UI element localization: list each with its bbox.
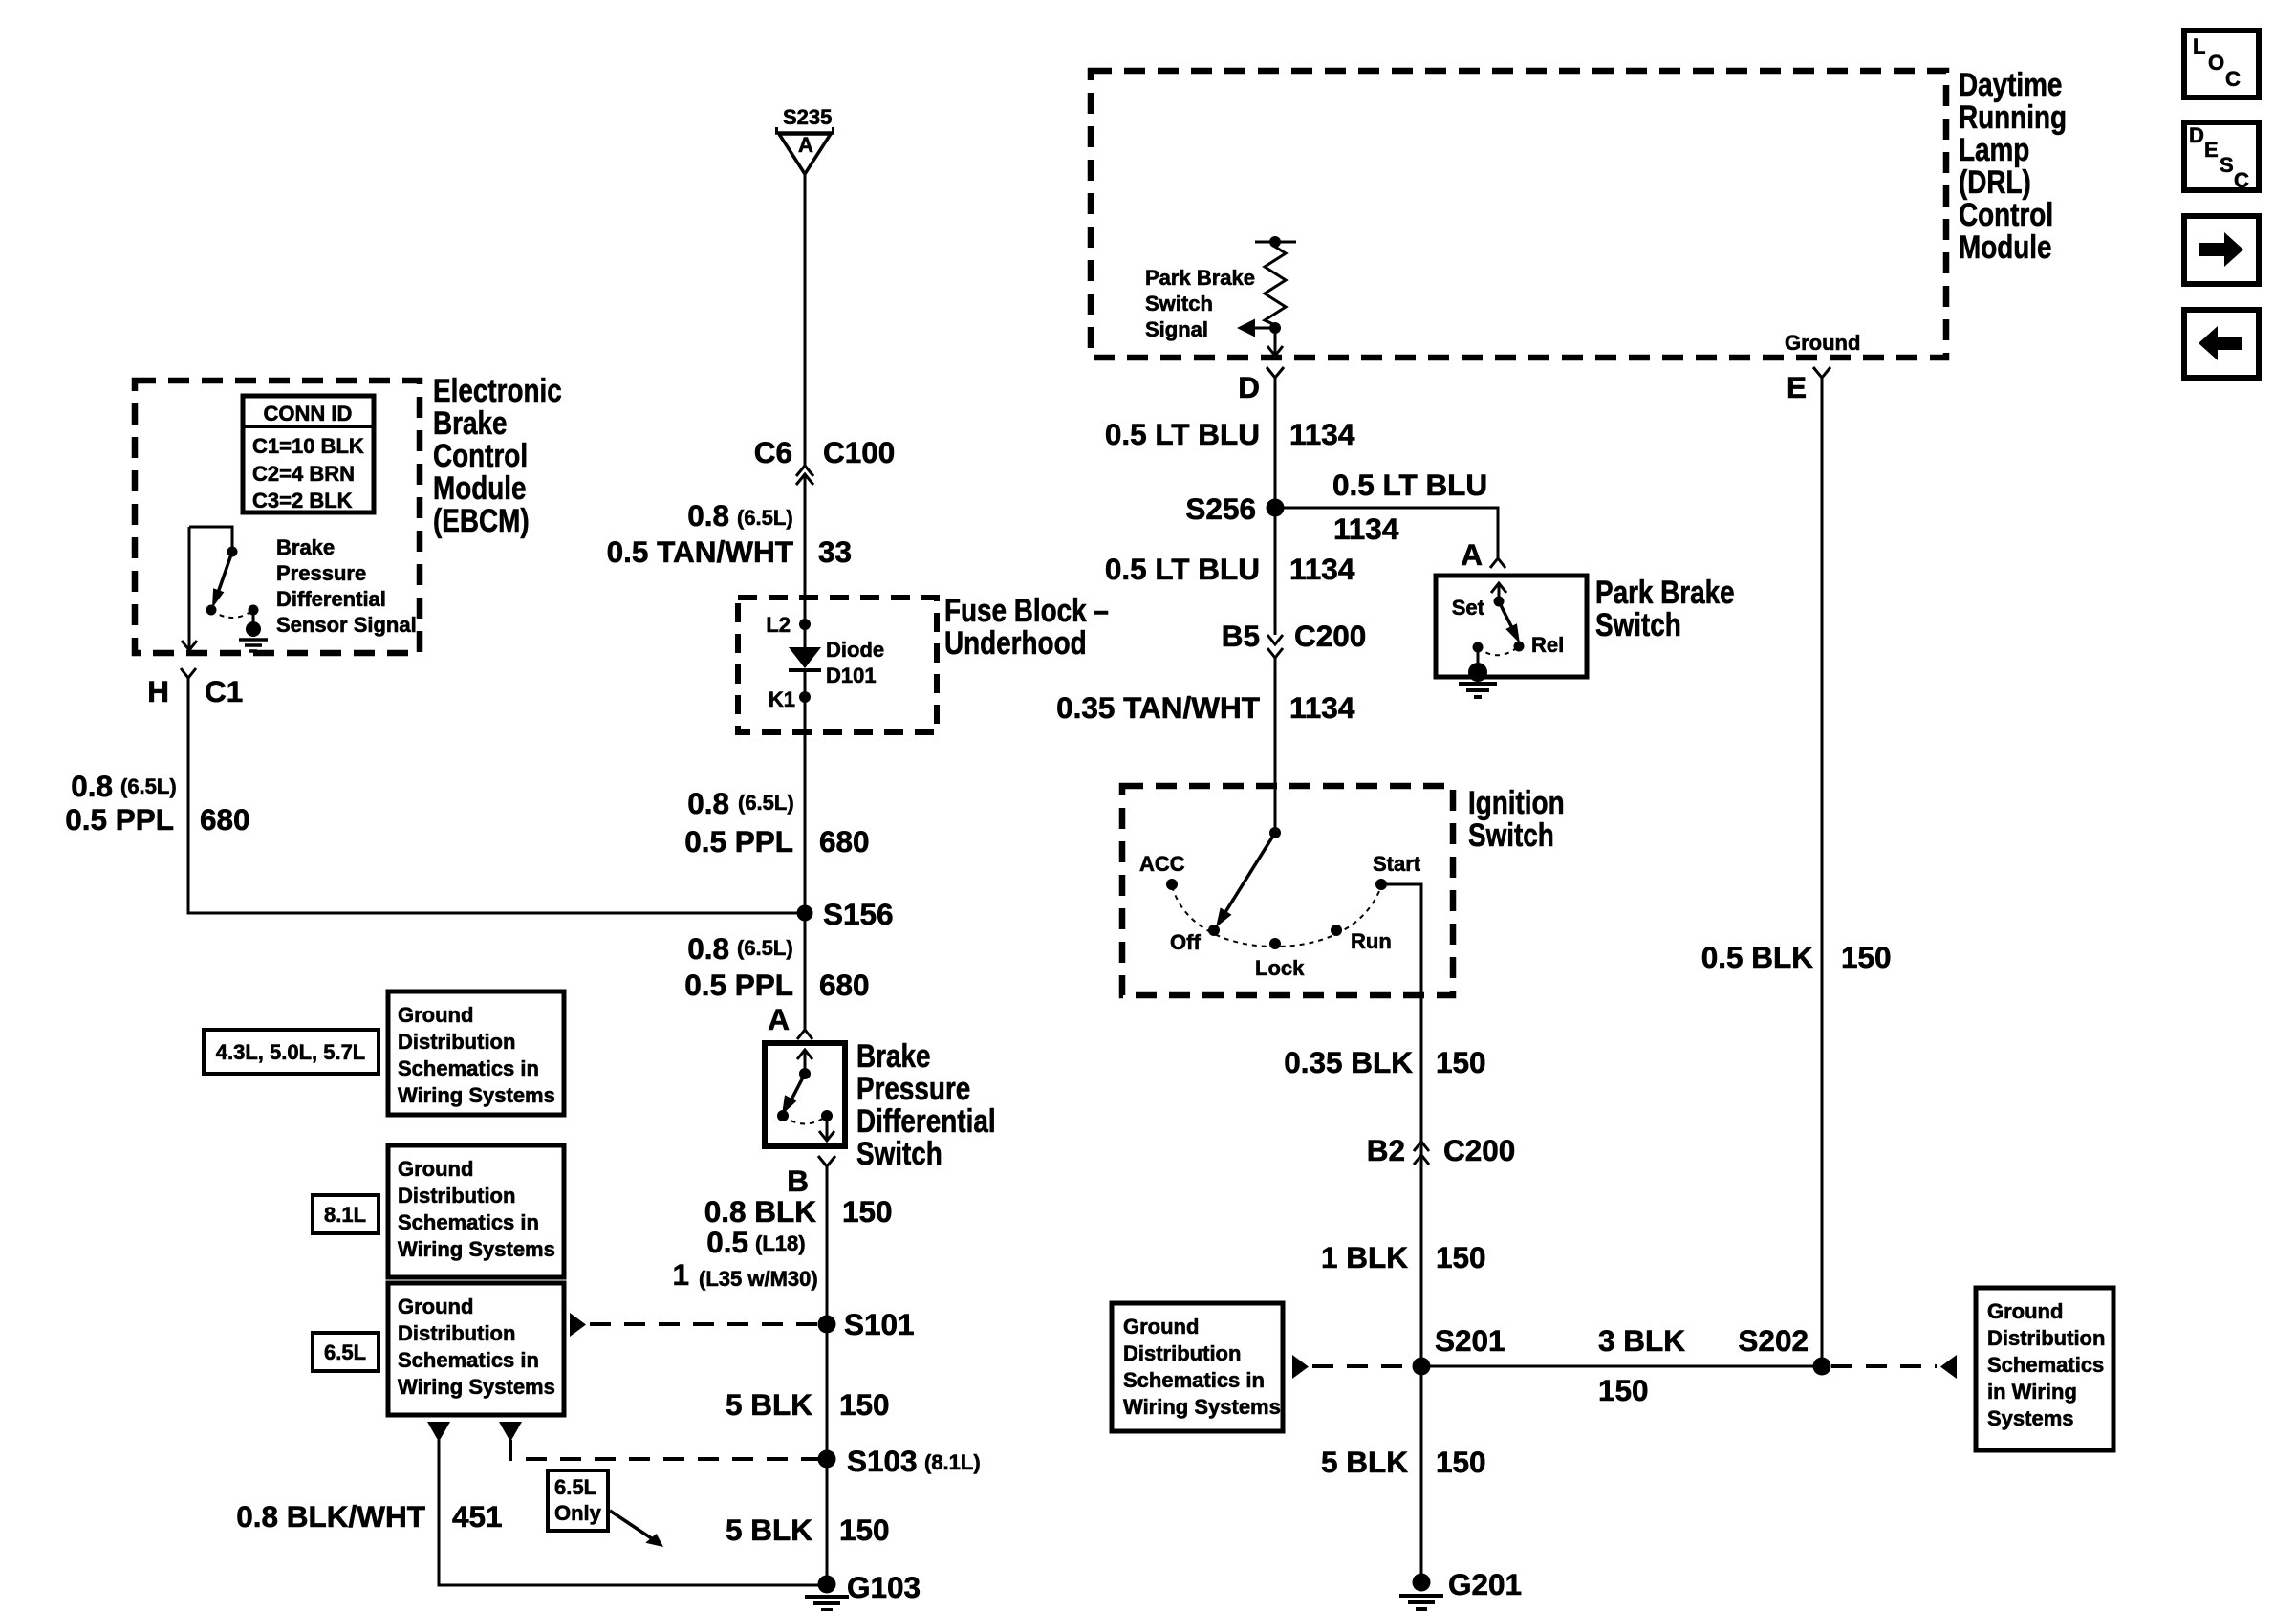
engine label 4.3L 5.0L 5.7L (204, 1030, 379, 1074)
connector C6 C100 (754, 435, 896, 485)
wire K1 to S156 (804, 697, 807, 913)
engine label 6.5L (313, 1333, 379, 1371)
svg-text:1 BLK: 1 BLK (1321, 1240, 1408, 1274)
contact Off (1170, 925, 1220, 954)
svg-text:Ground: Ground (1987, 1299, 2063, 1323)
terminal L2 (766, 613, 811, 637)
splice S256 (1185, 491, 1284, 526)
svg-text:Distribution: Distribution (398, 1030, 515, 1054)
svg-text:Schematics in: Schematics in (398, 1056, 539, 1080)
ebcm contact left (206, 605, 217, 616)
svg-text:G103: G103 (847, 1570, 921, 1604)
svg-text:0.35 BLK: 0.35 BLK (1284, 1045, 1413, 1079)
svg-text:Run: Run (1351, 929, 1392, 953)
svg-text:D101: D101 (826, 664, 877, 687)
node park brake switch signal (1269, 322, 1281, 334)
ebcm sensor ground (239, 610, 268, 651)
splice S101 (818, 1307, 915, 1341)
ground distribution box right (1976, 1288, 2113, 1450)
fuse block underhood label (944, 592, 1109, 661)
contact Set (1452, 596, 1505, 620)
svg-text:150: 150 (1436, 1445, 1486, 1479)
ground G201 (1399, 1567, 1522, 1609)
connector pin E (1787, 367, 1830, 404)
svg-text:G201: G201 (1448, 1567, 1522, 1601)
svg-text:Only: Only (554, 1501, 602, 1525)
svg-text:C6: C6 (754, 435, 792, 469)
svg-text:Wiring Systems: Wiring Systems (398, 1375, 555, 1399)
svg-text:(6.5L): (6.5L) (120, 774, 177, 798)
svg-text:Switch: Switch (1595, 606, 1681, 642)
connector pin D (1238, 367, 1284, 404)
svg-text:H: H (147, 674, 169, 708)
svg-text:0.5 PPL: 0.5 PPL (684, 824, 793, 859)
ignition switch box (1122, 786, 1453, 995)
wire label 0.8 (6.5L) 0.5 TAN/WHT 33 (607, 498, 852, 569)
ebcm pivot node (227, 547, 238, 557)
svg-text:L: L (2193, 34, 2205, 58)
dashed link S202 to right ground distribution (1831, 1355, 1957, 1379)
svg-text:Diode: Diode (826, 638, 884, 662)
ground distribution box 2 (388, 1145, 564, 1277)
bpds contact arrow up (797, 1050, 812, 1074)
svg-text:Distribution: Distribution (398, 1321, 515, 1345)
bpds pivot node (799, 1068, 811, 1079)
DRL control module label (1959, 66, 2067, 265)
svg-text:Rel: Rel (1531, 633, 1564, 657)
connector pin H C1 (147, 668, 243, 708)
svg-text:5 BLK: 5 BLK (1321, 1445, 1408, 1479)
contact common (1473, 642, 1484, 653)
icon LOC button (2184, 31, 2259, 98)
svg-text:C: C (2225, 67, 2241, 91)
bpds contact left (777, 1110, 789, 1121)
signal arrow to left (1237, 319, 1275, 337)
svg-text:0.35 TAN/WHT: 0.35 TAN/WHT (1056, 690, 1260, 725)
splice pack S235 (775, 105, 834, 174)
wire S256 branch to park brake switch (1275, 508, 1498, 558)
svg-text:680: 680 (200, 802, 250, 837)
wire C100 to fuse block (804, 474, 807, 624)
svg-text:150: 150 (1436, 1240, 1486, 1274)
wire S201 to S202 (1421, 1365, 1822, 1368)
svg-text:O: O (2208, 51, 2224, 75)
ignition pivot node (1269, 827, 1281, 838)
connector B2 C200 (1367, 1133, 1516, 1167)
ebcm arc dashed (211, 610, 253, 618)
svg-text:(6.5L): (6.5L) (737, 936, 793, 960)
svg-text:Control: Control (1959, 196, 2053, 232)
ground distribution box 1 (388, 991, 564, 1115)
svg-text:(L35 w/M30): (L35 w/M30) (699, 1267, 818, 1291)
svg-text:Park Brake: Park Brake (1595, 574, 1735, 610)
svg-text:Wiring Systems: Wiring Systems (1123, 1395, 1281, 1419)
wire label 0.5 LT BLU 1134 lower (1105, 552, 1355, 586)
wire label 0.5 BLK 150 (1701, 940, 1892, 974)
wire label 0.8 BLK 150 (704, 1194, 893, 1229)
svg-text:0.8 BLK: 0.8 BLK (704, 1194, 817, 1229)
ground distribution box 3 (388, 1283, 564, 1415)
svg-text:Brake: Brake (433, 404, 507, 441)
ebcm internal wire (189, 527, 232, 547)
svg-text:A: A (798, 133, 813, 157)
EBCM box (135, 381, 420, 653)
ebcm switch arm (212, 552, 232, 608)
ebcm contact right (249, 605, 259, 616)
svg-text:Lock: Lock (1255, 956, 1305, 980)
wire label 0.8 BLK/WHT 451 (236, 1499, 502, 1534)
svg-text:Pressure: Pressure (856, 1070, 970, 1106)
contact Lock (1255, 938, 1305, 980)
svg-text:Differential: Differential (856, 1102, 996, 1139)
park brake switch label (1595, 574, 1735, 642)
svg-text:451: 451 (452, 1499, 503, 1534)
wire E vertical (1821, 378, 1824, 1366)
svg-text:C100: C100 (823, 435, 895, 469)
svg-text:Pressure: Pressure (276, 561, 366, 585)
svg-text:150: 150 (839, 1513, 890, 1547)
dashed link S201 to left ground distribution (1292, 1355, 1413, 1379)
svg-text:(L18): (L18) (755, 1231, 806, 1255)
CONN ID table (243, 396, 374, 512)
svg-text:Start: Start (1373, 852, 1421, 876)
svg-text:C: C (2234, 168, 2249, 192)
svg-text:E: E (2204, 138, 2219, 162)
svg-text:0.8: 0.8 (687, 498, 729, 533)
svg-text:Systems: Systems (1987, 1406, 2074, 1430)
svg-text:0.8 BLK/WHT: 0.8 BLK/WHT (236, 1499, 425, 1534)
park brake switch box (1436, 576, 1587, 677)
icon DESC button (2184, 122, 2259, 192)
svg-text:0.5 TAN/WHT: 0.5 TAN/WHT (607, 534, 793, 569)
DRL control module box (1091, 71, 1946, 358)
svg-text:0.8: 0.8 (687, 786, 729, 820)
dashed link to S103 (510, 1440, 818, 1459)
svg-text:D: D (1238, 370, 1260, 404)
bpds arc dashed (783, 1116, 827, 1124)
svg-text:Underhood: Underhood (944, 624, 1087, 661)
connector pin A park brake switch (1461, 537, 1505, 572)
brake pressure differential sensor signal label (276, 535, 417, 637)
svg-text:S202: S202 (1738, 1323, 1809, 1358)
svg-text:Wiring Systems: Wiring Systems (398, 1237, 555, 1261)
svg-text:1: 1 (672, 1257, 689, 1292)
svg-text:(EBCM): (EBCM) (433, 502, 530, 538)
arrow down at DRL pin D (1267, 346, 1283, 356)
svg-text:0.5: 0.5 (706, 1225, 748, 1259)
ignition switch arm (1216, 833, 1275, 927)
svg-text:0.5 LT BLU: 0.5 LT BLU (1332, 468, 1487, 502)
svg-text:Schematics in: Schematics in (398, 1210, 539, 1234)
svg-text:680: 680 (819, 968, 870, 1002)
svg-text:5 BLK: 5 BLK (726, 1387, 812, 1422)
svg-text:A: A (1461, 537, 1483, 572)
wire S235 to C100 (804, 174, 807, 467)
wire blk/wht to G103 (439, 1440, 827, 1585)
terminal K1 (769, 687, 811, 711)
svg-text:Distribution: Distribution (398, 1184, 515, 1208)
svg-text:(8.1L): (8.1L) (924, 1450, 981, 1474)
wire B2 to S201 (1420, 1155, 1423, 1582)
svg-text:Wiring Systems: Wiring Systems (398, 1083, 555, 1107)
wire label 3 BLK 150 (1598, 1323, 1685, 1407)
splice S156 (797, 897, 894, 931)
wire label 0.35 BLK 150 (1284, 1045, 1485, 1079)
svg-text:0.5 BLK: 0.5 BLK (1701, 940, 1814, 974)
wire label 0.8 (6.5L) 0.5 PPL 680 upper (684, 786, 869, 859)
ground park brake switch (1459, 647, 1497, 697)
svg-text:Brake: Brake (856, 1037, 930, 1074)
svg-text:S: S (2220, 153, 2234, 177)
svg-text:Ground: Ground (398, 1295, 473, 1318)
svg-text:CONN ID: CONN ID (264, 402, 353, 425)
svg-text:S235: S235 (783, 105, 832, 129)
svg-text:Park Brake: Park Brake (1145, 266, 1255, 290)
resistor (DRL internal pull-up) (1255, 242, 1296, 328)
ignition rotary arc dashed (1172, 886, 1381, 947)
contact Start (1373, 852, 1421, 890)
svg-text:0.5 PPL: 0.5 PPL (684, 968, 793, 1002)
connector pin A brake pressure switch (768, 1002, 812, 1039)
svg-text:Switch: Switch (1468, 816, 1554, 853)
wire B to G103 (826, 1166, 829, 1583)
svg-text:8.1L: 8.1L (324, 1203, 366, 1227)
arrow down left under box3 (427, 1422, 450, 1442)
svg-text:Set: Set (1452, 596, 1485, 620)
svg-text:150: 150 (1841, 940, 1892, 974)
brake pressure differential switch label (856, 1037, 996, 1171)
bpds switch arm (782, 1074, 805, 1115)
park brake switch arm (1499, 601, 1520, 643)
svg-text:0.5 PPL: 0.5 PPL (65, 802, 174, 837)
svg-text:1134: 1134 (1333, 512, 1399, 546)
connector B5 C200 (1222, 619, 1367, 658)
svg-text:Running: Running (1959, 98, 2067, 135)
wire label 5 BLK 150 upper (726, 1387, 890, 1422)
node resistor top (1269, 236, 1281, 248)
svg-text:Ground: Ground (1785, 331, 1860, 355)
svg-text:L2: L2 (766, 613, 791, 637)
svg-text:1134: 1134 (1289, 417, 1355, 451)
svg-text:150: 150 (839, 1387, 890, 1422)
svg-text:Module: Module (1959, 229, 2052, 265)
svg-text:680: 680 (819, 824, 870, 859)
svg-text:Distribution: Distribution (1987, 1326, 2105, 1350)
connector pin B (787, 1156, 835, 1198)
ebcm pin wire with down arrow (182, 527, 197, 650)
wire label 0.8 (6.5L) 0.5 PPL 680 lower (684, 931, 869, 1002)
svg-text:Electronic: Electronic (433, 372, 562, 408)
svg-text:5 BLK: 5 BLK (726, 1513, 812, 1547)
svg-text:Fuse Block –: Fuse Block – (944, 592, 1109, 628)
svg-text:D: D (2189, 123, 2204, 147)
ground distribution box left (1112, 1303, 1283, 1431)
park brake switch contact arrow up (1491, 583, 1506, 601)
svg-text:E: E (1787, 370, 1807, 404)
svg-text:C1=10 BLK: C1=10 BLK (252, 434, 364, 458)
svg-text:150: 150 (1598, 1373, 1649, 1407)
bpds contact arrow down (819, 1116, 834, 1141)
svg-text:C200: C200 (1443, 1133, 1515, 1167)
brake pressure differential switch box (765, 1043, 845, 1146)
svg-text:Daytime: Daytime (1959, 66, 2062, 102)
svg-text:Distribution: Distribution (1123, 1341, 1241, 1365)
svg-text:Switch: Switch (1145, 292, 1213, 316)
wire into ignition switch (1274, 658, 1277, 833)
svg-text:0.5 LT BLU: 0.5 LT BLU (1105, 552, 1260, 586)
splice S202 (1738, 1323, 1830, 1376)
svg-text:Lamp: Lamp (1959, 131, 2029, 167)
svg-text:150: 150 (842, 1194, 893, 1229)
icon left-arrow button (2184, 310, 2259, 378)
contact Run (1331, 925, 1392, 953)
svg-text:Differential: Differential (276, 587, 386, 611)
svg-text:Ground: Ground (398, 1157, 473, 1181)
svg-text:C2=4 BRN: C2=4 BRN (252, 462, 355, 486)
wire label 0.5 LT BLU 1134 (1105, 417, 1355, 451)
wire label 5 BLK 150 right (1321, 1445, 1486, 1479)
ignition switch label (1468, 784, 1565, 853)
svg-text:1134: 1134 (1289, 690, 1355, 725)
wire label 0.5 LT BLU 1134 branch (1332, 468, 1487, 546)
svg-text:150: 150 (1436, 1045, 1486, 1079)
svg-text:(6.5L): (6.5L) (737, 506, 793, 530)
bpds contact right (821, 1110, 833, 1121)
svg-text:S201: S201 (1435, 1323, 1505, 1358)
splice S103 (818, 1444, 981, 1478)
svg-text:6.5L: 6.5L (324, 1340, 366, 1364)
contact ACC (1139, 852, 1185, 890)
svg-text:in Wiring: in Wiring (1987, 1380, 2077, 1404)
svg-text:B5: B5 (1222, 619, 1260, 653)
EBCM label (433, 372, 562, 538)
svg-text:Schematics in: Schematics in (398, 1348, 539, 1372)
wire label 0.35 TAN/WHT 1134 (1056, 690, 1355, 725)
6.5L only arrow (610, 1511, 663, 1547)
wire Start to down run (1381, 884, 1421, 1159)
svg-text:S103: S103 (847, 1444, 918, 1478)
svg-text:6.5L: 6.5L (554, 1475, 596, 1499)
wire DRL internal down (1274, 328, 1277, 355)
svg-text:Schematics: Schematics (1987, 1353, 2104, 1377)
6.5L Only box (548, 1470, 608, 1531)
wire label 5 BLK 150 lower (726, 1513, 890, 1547)
svg-text:A: A (768, 1002, 790, 1036)
svg-text:K1: K1 (769, 687, 795, 711)
svg-text:C1: C1 (205, 674, 243, 708)
ground G103 (805, 1570, 921, 1610)
svg-text:1134: 1134 (1289, 552, 1355, 586)
svg-text:Ground: Ground (1123, 1315, 1199, 1339)
svg-text:Schematics in: Schematics in (1123, 1368, 1265, 1392)
svg-text:Sensor Signal: Sensor Signal (276, 613, 417, 637)
switch arc dashed (1478, 646, 1519, 655)
dashed link box3 to S101 (570, 1313, 818, 1337)
svg-text:Brake: Brake (276, 535, 335, 559)
arrow down right under box3 (499, 1422, 522, 1442)
svg-text:4.3L, 5.0L, 5.7L: 4.3L, 5.0L, 5.7L (216, 1040, 366, 1064)
svg-text:Off: Off (1170, 930, 1201, 954)
svg-text:Switch: Switch (856, 1135, 942, 1171)
svg-text:0.5 LT BLU: 0.5 LT BLU (1105, 417, 1260, 451)
svg-text:C200: C200 (1294, 619, 1366, 653)
wire S156 to A (804, 913, 807, 1030)
wire label 1 BLK 150 (1321, 1240, 1486, 1274)
svg-text:C3=2 BLK: C3=2 BLK (252, 489, 353, 512)
svg-text:(6.5L): (6.5L) (738, 791, 794, 815)
svg-text:(DRL): (DRL) (1959, 163, 2031, 200)
icon right-arrow button (2184, 216, 2259, 284)
svg-text:S156: S156 (823, 897, 894, 931)
wire label 1 (L35 w/M30) (672, 1257, 817, 1292)
svg-text:B: B (787, 1164, 809, 1198)
svg-text:Module: Module (433, 469, 527, 506)
svg-text:0.8: 0.8 (687, 931, 729, 966)
fuse block underhood box (738, 598, 937, 732)
svg-text:Ignition: Ignition (1468, 784, 1565, 820)
wire label 0.8 (6.5L) 0.5 PPL 680 left (65, 769, 249, 837)
svg-text:Control: Control (433, 437, 528, 473)
svg-text:3 BLK: 3 BLK (1598, 1323, 1685, 1358)
svg-text:Signal: Signal (1145, 317, 1208, 341)
svg-text:33: 33 (818, 534, 852, 569)
engine label 8.1L (313, 1195, 379, 1233)
svg-text:B2: B2 (1367, 1133, 1405, 1167)
wire label 0.5 (L18) (706, 1225, 805, 1259)
svg-text:S256: S256 (1185, 491, 1256, 526)
svg-text:0.8: 0.8 (71, 769, 113, 803)
svg-text:ACC: ACC (1139, 852, 1185, 876)
svg-text:S101: S101 (844, 1307, 915, 1341)
diode D101 (789, 624, 884, 697)
contact Rel (1514, 633, 1565, 657)
Park Brake Switch Signal label (1145, 266, 1255, 341)
svg-text:Ground: Ground (398, 1003, 473, 1027)
wire D vertical (1274, 378, 1277, 635)
splice S201 (1413, 1323, 1505, 1376)
wire H to S156 (188, 678, 805, 913)
